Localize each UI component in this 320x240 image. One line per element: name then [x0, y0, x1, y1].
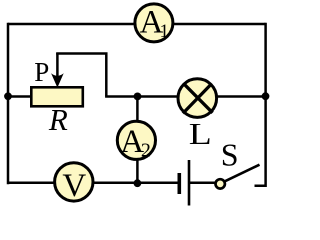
ammeter A1 — [135, 4, 173, 42]
wire: wiper lead from P arrow over to middle node — [56, 54, 106, 97]
switch S: open blade — [224, 165, 259, 182]
wire: middle horizontal through lamp L to right side — [105, 95, 265, 98]
wire: A2 branch vertical — [136, 97, 139, 184]
switch S: pivot contact — [216, 179, 225, 188]
svg-text:L: L — [189, 116, 212, 151]
svg-text:V: V — [62, 168, 86, 204]
wire: right side vertical with bottom stub to switch — [255, 23, 266, 186]
label S — [221, 136, 239, 172]
lamp L (bulb symbol) — [178, 79, 217, 118]
label L — [189, 116, 212, 151]
node: junction middle wire / A2 branch — [134, 93, 142, 101]
wire: battery to switch pivot — [189, 182, 218, 185]
battery cell: short negative plate — [178, 173, 182, 194]
resistor R (rheostat body) — [31, 87, 83, 106]
wiper arrow P (slider of rheostat) — [51, 53, 64, 88]
label R (value of rheostat) — [48, 102, 68, 137]
svg-text:P: P — [34, 57, 49, 87]
node: junction right wire / lamp lead — [262, 92, 270, 100]
svg-text:2: 2 — [141, 139, 151, 161]
node: junction bottom wire / A2 branch — [134, 179, 142, 187]
wire: left side vertical — [7, 23, 10, 184]
node: junction left wire / rheostat lead — [4, 92, 12, 100]
wire: rheostat left lead — [8, 95, 32, 98]
wire: top side (node from battery + through A1) — [8, 23, 266, 26]
svg-text:R: R — [48, 102, 68, 137]
svg-text:S: S — [221, 136, 239, 172]
ammeter A2 — [117, 121, 155, 161]
wire: bottom side through voltmeter to battery — [8, 181, 179, 184]
battery cell: long positive plate — [188, 160, 191, 206]
label P — [34, 57, 49, 87]
voltmeter V — [55, 163, 93, 204]
svg-text:1: 1 — [160, 21, 170, 42]
